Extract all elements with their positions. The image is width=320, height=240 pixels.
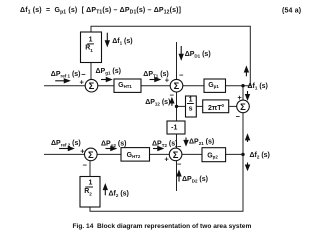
svg-text:+: + xyxy=(237,93,242,102)
wire node to 1/s xyxy=(177,105,186,107)
wire S2 bottom to node to -1 block xyxy=(176,92,178,121)
arrow f2 node down xyxy=(247,163,249,167)
svg-text:−: − xyxy=(179,71,184,80)
svg-text:Δf1 (s): Δf1 (s) xyxy=(112,38,132,46)
summing junction S2 xyxy=(170,79,183,92)
svg-text:Σ: Σ xyxy=(240,101,246,112)
wire S3 top to f1 node xyxy=(242,86,244,100)
arrow f1 node up xyxy=(245,71,247,77)
svg-text:Σ: Σ xyxy=(174,80,180,91)
arrow dP12 up xyxy=(171,102,173,106)
block texts xyxy=(84,37,224,197)
block 1/R1 xyxy=(81,32,102,63)
wire dPD1 stub into S2 top xyxy=(176,42,178,79)
svg-text:−: − xyxy=(177,159,182,168)
svg-text:+: + xyxy=(80,78,85,87)
wire GHT2 to S5 xyxy=(150,153,170,155)
svg-text:Gp1: Gp1 xyxy=(208,82,219,89)
arrow f2 node up xyxy=(247,139,249,143)
wire dPD2 stub into S5 bottom xyxy=(176,161,178,191)
summing junction S4 xyxy=(85,148,98,161)
svg-text:Δf2 (s): Δf2 (s) xyxy=(109,191,129,199)
svg-text:−: − xyxy=(236,112,241,121)
block -1 xyxy=(167,121,185,134)
svg-text:Σ: Σ xyxy=(88,149,94,160)
block 1/s integrator xyxy=(186,96,197,117)
svg-text:−: − xyxy=(177,142,182,151)
svg-text:GHT1: GHT1 xyxy=(118,82,132,89)
wire S3 bottom down through f2 node to bottom feedback xyxy=(90,113,243,212)
wire input dPref2 xyxy=(44,153,85,155)
arrow dP21 down xyxy=(185,138,187,142)
block GHT2 xyxy=(121,148,150,162)
wire feedback top from node to 1/R1 xyxy=(91,26,250,85)
wire R2 top to S4 bottom xyxy=(89,161,91,176)
summing junction S1 xyxy=(85,79,98,92)
node f2 junction dot xyxy=(241,153,244,156)
svg-text:GHT2: GHT2 xyxy=(127,152,141,159)
svg-text:Σ: Σ xyxy=(89,80,95,91)
wire R1 to summing S1 xyxy=(90,63,92,80)
svg-text:s: s xyxy=(189,105,193,112)
wire S1 to GHT1 xyxy=(98,85,114,87)
wire S5 to GP2 xyxy=(182,153,202,155)
node tie junction dot xyxy=(175,105,178,108)
svg-text:-1: -1 xyxy=(171,124,177,131)
arrow dPg2 xyxy=(106,148,113,150)
arrow dPref1 xyxy=(55,80,65,82)
wire S2 to GP1 xyxy=(183,85,204,87)
wire -1 to S5 xyxy=(176,134,178,148)
svg-text:1: 1 xyxy=(88,180,92,187)
arrow dPT1 xyxy=(150,79,157,81)
svg-text:−: − xyxy=(81,70,86,79)
wire GHT1 to S2 xyxy=(141,85,170,87)
wire S4 to GHT2 xyxy=(97,153,121,155)
arrow dPD2 up xyxy=(178,175,180,182)
svg-text:1: 1 xyxy=(189,97,193,104)
signal labels xyxy=(51,38,270,198)
svg-text:−: − xyxy=(83,161,88,170)
equation 54a xyxy=(20,7,301,16)
sigma symbols xyxy=(88,80,246,160)
arrow dPD1 down xyxy=(180,46,182,56)
block 2piT0 xyxy=(203,100,229,113)
svg-text:1: 1 xyxy=(89,37,93,44)
block GP1 xyxy=(204,79,226,92)
svg-text:+: + xyxy=(80,147,85,156)
node f1 junction dot xyxy=(241,84,244,87)
block GHT1 xyxy=(114,79,141,92)
summing junction S5 xyxy=(169,148,182,161)
svg-text:Δf2 (s): Δf2 (s) xyxy=(250,152,270,160)
svg-text:(54 a): (54 a) xyxy=(282,8,301,15)
arrow dPg1 xyxy=(101,79,108,81)
arrow df1 top down xyxy=(106,33,108,42)
block 1/R2 xyxy=(80,177,100,208)
wire 1/s to 2piT xyxy=(196,105,203,107)
arrow f1 node down xyxy=(247,91,249,96)
annotation arrows xyxy=(55,33,249,196)
wire input dPref1 xyxy=(44,85,85,87)
block GP2 xyxy=(202,148,226,162)
svg-text:Δf1 (s): Δf1 (s) xyxy=(248,83,268,91)
svg-text:+: + xyxy=(164,154,169,163)
plus minus signs xyxy=(80,70,243,170)
summing junction S3 xyxy=(237,100,250,113)
svg-text:Gp2: Gp2 xyxy=(207,153,218,160)
arrow dPT2 xyxy=(153,148,159,150)
arrow dPref2 xyxy=(59,148,70,150)
svg-text:Fig. 14 Block diagram represe: Fig. 14 Block diagram representation of … xyxy=(73,223,252,230)
wire 2piT to S3 xyxy=(229,105,236,107)
wire GP2 to f2 node xyxy=(226,153,243,155)
arrow df2 block up xyxy=(104,188,106,195)
